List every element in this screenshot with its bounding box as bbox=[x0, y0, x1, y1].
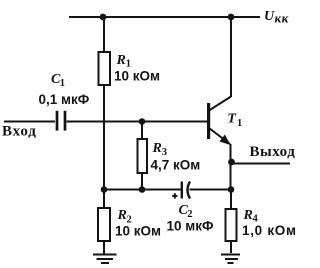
svg-text:Выход: Выход bbox=[250, 144, 296, 160]
wire: output lead bbox=[231, 163, 290, 165]
wire: C2 to emitter node bbox=[190, 189, 232, 191]
wire: R2 top lead bbox=[103, 190, 105, 209]
wire: R1 top lead from rail bbox=[103, 17, 105, 52]
wire: collector vertical to rail bbox=[230, 17, 232, 97]
svg-text:R: R bbox=[117, 208, 127, 223]
svg-text:R: R bbox=[116, 53, 126, 68]
resistor R4 bbox=[226, 209, 237, 241]
wire: R3 bottom lead bbox=[141, 173, 143, 190]
svg-text:U: U bbox=[264, 9, 275, 24]
junction: R1 / top rail bbox=[100, 14, 107, 21]
resistor R2 bbox=[98, 208, 110, 241]
svg-text:4,7 кОм: 4,7 кОм bbox=[151, 157, 201, 172]
wire: input lead bbox=[4, 121, 55, 123]
wire: R1 bottom through base line down to R2 node bbox=[103, 85, 105, 190]
T1 emitter arrowhead bbox=[220, 135, 231, 146]
junction: R2 top / bottom node bbox=[101, 186, 108, 193]
resistor R1 bbox=[99, 52, 111, 85]
svg-text:T: T bbox=[227, 111, 237, 126]
svg-text:R: R bbox=[152, 141, 162, 156]
ground (under R4) bbox=[221, 255, 240, 264]
wire: R4 top lead bbox=[230, 190, 232, 210]
junction: R3 bottom / bottom node bbox=[139, 186, 146, 193]
T1 collector diagonal bbox=[209, 97, 231, 111]
transistor T1 bbox=[207, 97, 231, 146]
wire: R4 bottom lead to ground bbox=[230, 241, 232, 253]
resistor R3 bbox=[138, 139, 148, 173]
wire: R3 top lead bbox=[141, 122, 143, 140]
wire: emitter vertical (to output / C2 / R4) bbox=[230, 144, 232, 190]
svg-text:1: 1 bbox=[237, 118, 242, 129]
wire: top supply rail bbox=[69, 16, 260, 18]
svg-text:0,1 мкФ: 0,1 мкФ bbox=[39, 92, 90, 107]
wire: R2 bottom lead to ground bbox=[103, 241, 105, 254]
junction: R3 top / base wire bbox=[139, 118, 146, 125]
svg-text:кк: кк bbox=[275, 11, 289, 26]
svg-text:Вход: Вход bbox=[2, 124, 37, 140]
junction: collector / top rail bbox=[228, 14, 235, 21]
wire: bottom node line R2 to C2 bbox=[104, 189, 181, 191]
junction: emitter / C2 / R4 bbox=[228, 186, 235, 193]
svg-text:R: R bbox=[243, 208, 253, 223]
svg-text:10 мкФ: 10 мкФ bbox=[167, 219, 215, 234]
capacitor C2 bbox=[182, 182, 190, 199]
polarity + (C2) bbox=[172, 193, 177, 198]
junction: output node on emitter bbox=[228, 159, 235, 166]
svg-text:10 кОм: 10 кОм bbox=[114, 69, 160, 84]
T1 base bar bbox=[207, 103, 210, 139]
svg-text:1,0 кОм: 1,0 кОм bbox=[242, 223, 297, 238]
T1 emitter diagonal bbox=[209, 128, 230, 144]
wire: C1 to transistor base bbox=[67, 121, 209, 123]
ground (under R2) bbox=[93, 255, 117, 264]
capacitor C1 bbox=[57, 111, 65, 131]
svg-text:1: 1 bbox=[60, 78, 65, 89]
svg-text:10 кОм: 10 кОм bbox=[115, 224, 161, 239]
